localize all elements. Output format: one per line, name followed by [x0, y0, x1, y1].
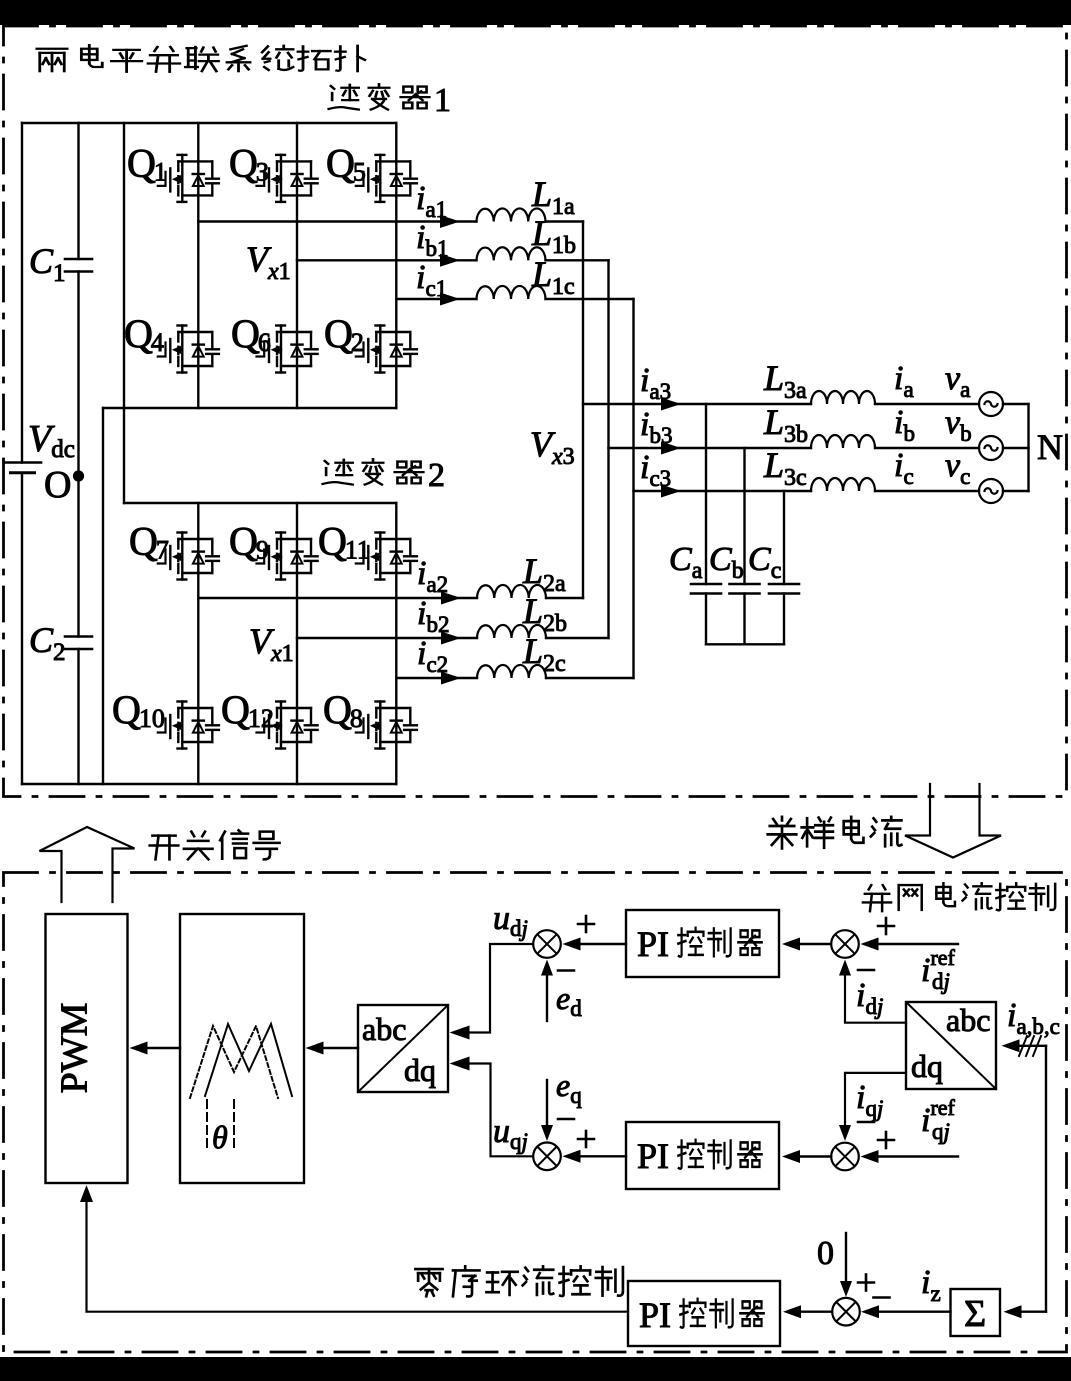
label ib [894, 404, 915, 446]
ac source va [979, 392, 1003, 416]
label ia1 [416, 180, 447, 222]
svg-text:eq: eq [556, 1067, 582, 1108]
wire: capacitor bank star bus [706, 643, 784, 645]
current arrow ia3 [661, 398, 681, 411]
label Q10 [112, 687, 165, 733]
label i_abc [1007, 997, 1060, 1039]
wire: common bottom bus [22, 783, 396, 785]
svg-text:ib: ib [894, 404, 915, 446]
label Q1 [127, 141, 167, 187]
svg-text:PI: PI [637, 924, 669, 964]
label Vx1 (inverter 1) [246, 239, 291, 285]
minus sign at i_dj sum [858, 969, 874, 971]
minus sign at u_dj [558, 970, 574, 972]
summing junction zero-seq [832, 1298, 860, 1326]
label i_qj [856, 1079, 883, 1121]
inductor L2c [477, 665, 546, 678]
current arrow ic1 [440, 293, 460, 306]
node O junction dot [73, 470, 84, 481]
label L3a [763, 358, 807, 404]
svg-text:Q12: Q12 [221, 687, 274, 733]
label 开关信号 [150, 830, 280, 859]
label Vx3 [530, 424, 575, 470]
svg-text:PWM: PWM [54, 1003, 96, 1094]
label L1a [531, 174, 575, 220]
label N (neutral node) [1037, 427, 1063, 467]
svg-text:dq: dq [911, 1048, 943, 1084]
label u_dj [493, 900, 528, 941]
top scan black bar [0, 0, 1071, 25]
svg-text:Cc: Cc [748, 541, 781, 584]
label Q12 [221, 687, 274, 733]
svg-text:PI: PI [637, 1136, 669, 1176]
label L1b [531, 213, 576, 259]
block abc/dq transform (modulation side) [358, 1005, 448, 1092]
label Q4 [124, 311, 164, 357]
svg-text:θ: θ [212, 1119, 228, 1155]
wire: inverter 1 leg A [197, 123, 199, 408]
ac source vb [979, 436, 1003, 460]
inductor L3c [811, 478, 875, 491]
switching-signal hollow up arrow [40, 827, 135, 902]
label 零序环流控制 [415, 1266, 623, 1296]
wire: inverter 2 leg A [197, 503, 199, 784]
svg-text:Vdc: Vdc [28, 418, 75, 463]
svg-text:Vx3: Vx3 [530, 424, 575, 470]
wire: e_q input arrow [541, 1080, 553, 1141]
block PI controller (q axis) [626, 1122, 779, 1189]
inductor L3a [811, 391, 875, 404]
label L2b [522, 591, 567, 637]
label O [44, 464, 71, 506]
inductor L3b [811, 435, 875, 448]
wire: sigma to sum [861, 1305, 951, 1318]
inductor L1c [477, 286, 546, 299]
wire: phase c parallel vertical [632, 299, 634, 678]
current arrow ia1 [440, 215, 460, 228]
svg-text:Q2: Q2 [324, 311, 364, 357]
label ic2 [417, 635, 448, 677]
label va [945, 360, 970, 402]
svg-text:qj: qj [932, 1119, 950, 1144]
wire: inverter 1 leg C [395, 123, 397, 408]
label i_dj [856, 977, 883, 1019]
wire: measurement bus down to sigma [1045, 1046, 1047, 1312]
label i_z [921, 1264, 941, 1306]
label ib1 [416, 219, 448, 261]
label Q6 [231, 311, 271, 357]
wire: zero reference input [840, 1233, 852, 1297]
label 采样电流 [768, 817, 902, 849]
wire: phase b2 output [297, 637, 609, 639]
svg-text:Q8: Q8 [323, 687, 363, 733]
label Q3 [229, 141, 269, 187]
transistor Q10 (MOSFET with body diode and snubber capacitor) [158, 702, 219, 749]
wire: outer left rail (battery branch) [21, 123, 23, 784]
transistor Q6 (MOSFET with body diode and snubber capacitor) [257, 326, 318, 373]
svg-text:L3b: L3b [763, 402, 808, 448]
inductor L2b [477, 625, 546, 638]
svg-text:2: 2 [428, 457, 445, 494]
label L2c [522, 631, 566, 677]
svg-text:ia3: ia3 [640, 362, 671, 404]
svg-text:Q5: Q5 [326, 141, 366, 187]
battery Vdc [4, 463, 41, 473]
summing junction u_dj [533, 930, 561, 958]
capacitor Cb [730, 584, 760, 594]
svg-text:vc: vc [945, 447, 970, 489]
transistor Q9 (MOSFET with body diode and snubber capacitor) [257, 533, 318, 580]
ac source vc [979, 479, 1003, 503]
label C1 [29, 241, 66, 287]
svg-text:iz: iz [921, 1264, 941, 1306]
svg-text:abc: abc [362, 1011, 406, 1047]
svg-text:1: 1 [434, 82, 451, 119]
capacitor C2 [65, 637, 92, 650]
svg-text:Cb: Cb [709, 541, 744, 584]
transistor Q7 (MOSFET with body diode and snubber capacitor) [158, 533, 219, 580]
capacitor Ca [691, 584, 721, 594]
label 并网电流控制 [863, 883, 1055, 911]
svg-text:Q4: Q4 [124, 311, 164, 357]
svg-text:ic3: ic3 [640, 449, 671, 491]
svg-text:va: va [945, 360, 970, 402]
label C2 [29, 620, 66, 666]
wire: phase a parallel vertical [582, 222, 584, 599]
svg-text:udj: udj [493, 900, 528, 941]
svg-text:iqj: iqj [856, 1079, 883, 1121]
transistor Q2 (MOSFET with body diode and snubber capacitor) [356, 326, 417, 373]
label ib2 [417, 595, 449, 637]
label Q5 [326, 141, 366, 187]
svg-text:Q3: Q3 [229, 141, 269, 187]
inductor L2a [477, 585, 546, 598]
transistor Q3 (MOSFET with body diode and snubber capacitor) [257, 155, 318, 202]
transistor Q12 (MOSFET with body diode and snubber capacitor) [257, 702, 318, 749]
label Q9 [229, 519, 269, 565]
label ia [894, 360, 914, 402]
label theta [212, 1119, 228, 1155]
svg-text:Q7: Q7 [129, 519, 169, 565]
plus sign at u_dj [578, 916, 594, 932]
block PI controller (zero sequence) [628, 1281, 780, 1346]
theta dashed markers [207, 1100, 234, 1152]
svg-text:ed: ed [556, 980, 582, 1021]
label u_qj [493, 1113, 528, 1154]
svg-text:ib3: ib3 [640, 406, 672, 448]
wire: i_abc input [1002, 1039, 1047, 1052]
plus sign at i_qj sum [878, 1132, 894, 1148]
wire: sum to PI q [782, 1150, 831, 1163]
label ic1 [416, 259, 447, 301]
wire: neutral bus [1027, 404, 1029, 491]
wire: inverter 1 bottom bus [103, 407, 396, 409]
wire: u_qj to abc/dq lower input [450, 1057, 534, 1157]
label Q2 [324, 311, 364, 357]
transistor Q4 (MOSFET with body diode and snubber capacitor) [158, 326, 219, 373]
carrier dashed triangle wave [190, 1026, 278, 1098]
wire: combined phase a3 line [583, 403, 1029, 405]
block dq/abc transform (measurement side) [906, 1002, 996, 1089]
label L3b [763, 402, 808, 448]
transistor Q1 (MOSFET with body diode and snubber capacitor) [158, 155, 219, 202]
label 逆变器1 [329, 82, 451, 119]
svg-text:L3c: L3c [763, 445, 807, 491]
label Q7 [129, 519, 169, 565]
inductor L1a [477, 208, 546, 221]
wire: i_qj feedback [839, 1073, 906, 1141]
svg-text:Q11: Q11 [318, 519, 370, 565]
svg-text:ia: ia [894, 360, 914, 402]
wire: e_d input arrow [541, 960, 553, 1022]
svg-text:abc: abc [946, 1002, 990, 1038]
svg-text:L3a: L3a [763, 358, 807, 404]
label e_d [556, 980, 582, 1021]
wire: phase c1 output [396, 298, 633, 300]
wire: phase a1 output [198, 220, 583, 222]
wire: PI q output [563, 1150, 627, 1163]
bottom scan black bar [0, 1357, 1071, 1381]
svg-text:O: O [44, 464, 71, 506]
wire: u_dj to abc/dq upper input [450, 944, 534, 1040]
wire: inverter 2 leg C [395, 503, 397, 784]
transistor Q11 (MOSFET with body diode and snubber capacitor) [356, 533, 417, 580]
label 逆变器2 [323, 457, 445, 494]
label Vdc [28, 418, 75, 463]
block PI controller (d axis) [626, 910, 779, 977]
minus sign at zero-seq sum [874, 1297, 890, 1299]
label i_qj ref [921, 1095, 956, 1144]
label e_q [556, 1067, 582, 1108]
label ib3 [640, 406, 672, 448]
label ic [894, 447, 914, 489]
svg-text:C2: C2 [29, 620, 66, 666]
svg-text:uqj: uqj [493, 1113, 528, 1154]
title label 两电平并联系统拓扑 [37, 45, 365, 72]
label 0 reference [817, 1235, 834, 1272]
svg-text:ia1: ia1 [416, 180, 447, 222]
three-phase slash marks [1019, 1036, 1041, 1056]
label L1c [531, 254, 575, 300]
svg-text:Q9: Q9 [229, 519, 269, 565]
wire: inverter 1 leg B [296, 123, 298, 408]
plus sign at zero-seq sum [858, 1275, 874, 1291]
wire: PI d output [563, 938, 627, 951]
minus sign at u_qj [558, 1118, 574, 1120]
wire: phase b1 output [297, 259, 609, 261]
svg-text:idj: idj [856, 977, 883, 1019]
wire: inverter 2 leg B [296, 503, 298, 784]
label ic3 [640, 449, 671, 491]
svg-text:0: 0 [817, 1235, 834, 1272]
dash-dot frame of topology box [4, 26, 1067, 797]
svg-text:Vx1: Vx1 [249, 621, 294, 667]
block sigma (zero-seq current calc) [951, 1289, 1001, 1336]
wire: carrier to PWM [130, 1042, 181, 1055]
wire: positive rail to inverter 2 [123, 123, 125, 503]
svg-text:Q6: Q6 [231, 311, 271, 357]
current arrow ib1 [440, 254, 460, 267]
wire: combined phase b3 line [609, 447, 1029, 449]
label Q11 [318, 519, 370, 565]
svg-text:ia,b,c: ia,b,c [1007, 997, 1060, 1039]
svg-text:ia2: ia2 [417, 555, 448, 597]
svg-text:PI: PI [639, 1295, 671, 1335]
plus sign at u_qj [578, 1131, 594, 1147]
svg-text:ic: ic [894, 447, 914, 489]
wire: phase b parallel vertical [607, 260, 609, 638]
transistor Q8 (MOSFET with body diode and snubber capacitor) [356, 702, 417, 749]
label Ca [669, 541, 703, 584]
label Q8 [323, 687, 363, 733]
label ia2 [417, 555, 448, 597]
svg-text:dj: dj [932, 969, 950, 994]
minus sign at i_qj sum [858, 1121, 874, 1123]
current arrow ic3 [661, 485, 681, 498]
inductor L1b [477, 247, 546, 260]
label vc [945, 447, 970, 489]
wire: combined phase c3 line [634, 490, 1029, 492]
label Cc [748, 541, 781, 584]
svg-text:dq: dq [404, 1052, 436, 1088]
current arrow ib2 [441, 632, 461, 645]
svg-text:Vx1: Vx1 [246, 239, 291, 285]
wire: zero-seq PI output to PWM [80, 1185, 628, 1312]
wire: i_dj ref input [861, 938, 959, 951]
wire: negative rail from inverter 1 [102, 408, 104, 784]
transistor Q5 (MOSFET with body diode and snubber capacitor) [356, 155, 417, 202]
svg-text:Q1: Q1 [127, 141, 167, 187]
capacitor C1 [65, 259, 92, 272]
summing junction i_qj error [831, 1143, 859, 1171]
current arrow ic2 [441, 672, 461, 685]
dash-dot frame of control box [4, 873, 1067, 1353]
block PWM [46, 914, 128, 1183]
wire: bus into sigma [1004, 1305, 1047, 1318]
svg-text:C1: C1 [29, 241, 66, 287]
label L3c [763, 445, 807, 491]
svg-text:Ca: Ca [669, 541, 703, 584]
wire: capacitor Ca tap [705, 404, 707, 644]
wire: DC positive top bus [22, 122, 396, 124]
label i_dj ref [921, 945, 956, 994]
wire: i_dj feedback [839, 960, 906, 1023]
label L2a [522, 551, 566, 597]
block carrier generator [180, 914, 304, 1183]
wire: abc/dq to carrier [306, 1042, 359, 1055]
plus sign at i_dj sum [878, 918, 894, 934]
svg-text:Σ: Σ [964, 1293, 986, 1335]
wire: sum to PI d [782, 938, 831, 951]
wire: capacitor Cc tap [783, 491, 785, 644]
label Cb [709, 541, 744, 584]
wire: phase c2 output [396, 677, 633, 679]
summing junction u_qj [533, 1143, 561, 1171]
current arrow ib3 [661, 442, 681, 455]
wire: capacitor Cb tap [743, 448, 745, 644]
carrier solid triangle wave [205, 1024, 292, 1096]
wire: phase a2 output [198, 597, 583, 599]
wire: sum to zero-seq PI [783, 1305, 832, 1318]
label ia3 [640, 362, 671, 404]
label Vx1 (inverter 2) [249, 621, 294, 667]
wire: i_qj ref input [861, 1150, 959, 1163]
svg-text:N: N [1037, 427, 1063, 467]
wire: inverter 2 top bus [124, 502, 396, 504]
svg-text:Q10: Q10 [112, 687, 165, 733]
wire: capacitor mid rail [77, 123, 79, 784]
summing junction i_dj error [831, 930, 859, 958]
capacitor Cc [769, 584, 799, 594]
current arrow ia2 [441, 592, 461, 605]
label vb [945, 404, 972, 446]
sampled-current hollow down arrow [905, 784, 1001, 858]
svg-text:vb: vb [945, 404, 972, 446]
